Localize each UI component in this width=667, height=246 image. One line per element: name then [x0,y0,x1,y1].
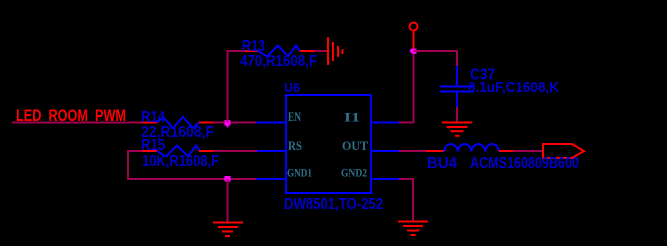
wire corner to R13 left pin [227,50,247,52]
wire R13 right pin to ground [314,50,328,52]
svg-text:R15: R15 [141,137,165,154]
capacitor C37 [440,66,474,107]
resistor R13 [245,46,314,57]
svg-text:RS: RS [288,138,302,153]
wire R15 left horizontal [127,150,143,152]
wire power node to C37 [414,50,458,52]
svg-text:EN: EN [288,109,301,124]
wire net LED_ROOM_PWM to R14 left pin [12,122,141,124]
junction dot power node [410,49,417,55]
pin I1 stub [371,122,399,124]
ground symbol at GND2 [398,222,428,236]
wire GND2 to ground corner [399,178,414,180]
svg-text:I1: I1 [344,110,360,125]
pin EN stub [256,122,286,124]
pin GND1 stub [256,178,286,180]
ground symbol (rotated right) at R13 [328,37,343,65]
off-page connector arrow [543,144,584,158]
svg-text:GND2: GND2 [341,166,367,180]
svg-text:BU4: BU4 [427,155,457,172]
wire R15 right pin to pin RS [213,150,257,152]
wire R15 left vertical down [127,150,129,179]
resistor R14 [141,117,213,128]
wire OUT to BU4 [399,150,426,152]
wire junction up to R13 row [227,51,229,123]
inductor BU4 [426,144,513,151]
wire C37 bottom to ground [456,107,458,122]
svg-text:0.1uF,C1608,K: 0.1uF,C1608,K [468,79,559,96]
wire down to C37 top [456,51,458,67]
svg-text:470,R1608,F: 470,R1608,F [240,53,317,70]
svg-text:OUT: OUT [342,138,368,153]
pin RS stub [257,150,286,152]
svg-text:DW8501,TO-252: DW8501,TO-252 [284,196,383,213]
svg-text:GND1: GND1 [287,166,312,180]
wire GND2 ground vertical [412,179,414,221]
wire power node vertical [413,51,415,123]
svg-text:ACMS160809B600: ACMS160809B600 [470,155,579,172]
ground symbol at GND1 [213,223,243,237]
wire R14 right pin to pin EN [213,122,256,124]
pin GND2 stub [371,178,399,180]
pin OUT stub [371,150,399,152]
junction dot GND1 net [225,176,231,184]
resistor R15 [142,146,213,157]
wire I1 to power node horizontal [399,122,414,124]
svg-text:10K,R1608,F: 10K,R1608,F [142,153,219,170]
power symbol circle [410,23,418,31]
ground symbol at C37 [442,123,472,136]
wire GND1 net horizontal [127,178,256,180]
junction dot EN net [225,120,231,128]
wire junction down to ground [227,179,229,222]
svg-text:U6: U6 [284,80,300,95]
IC U6 body [286,95,371,193]
wire BU4 to connector [513,150,544,152]
power symbol stem [413,30,415,50]
